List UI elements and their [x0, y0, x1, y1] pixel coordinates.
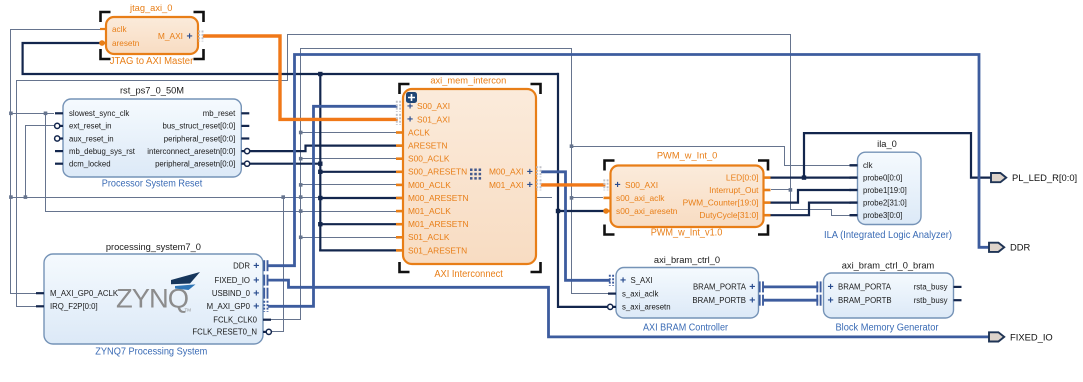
junction clk at (10.9,197.1)	[9, 195, 13, 199]
pin icn M00_AXI	[536, 166, 538, 177]
block processing_system7_0 ZYNQ7 Processing System	[44, 254, 263, 344]
pin ps7 M_AXI_GP0	[263, 301, 265, 312]
svg-text:aresetn: aresetn	[112, 39, 140, 48]
wire DutyCycle[31:0] to probe2	[772, 203, 850, 216]
svg-text:interconnect_aresetn[0:0]: interconnect_aresetn[0:0]	[147, 147, 235, 156]
pin jtag aclk	[100, 28, 106, 30]
svg-text:PWM_w_Int_0: PWM_w_Int_0	[657, 151, 717, 161]
svg-text:Interrupt_Out: Interrupt_Out	[709, 185, 759, 195]
svg-text:peripheral_aresetn[0:0]: peripheral_aresetn[0:0]	[155, 160, 235, 169]
pin ila probe0[0:0]	[850, 176, 858, 178]
pin ps7 FCLK_CLK0	[263, 319, 271, 321]
bus DDR to DDR port	[270, 55, 990, 266]
svg-text:+: +	[407, 114, 413, 126]
svg-text:dcm_locked: dcm_locked	[69, 160, 111, 169]
wire aresetn vertical x=320.3	[319, 74, 321, 250]
wire clk branch interconnect ACLK	[301, 132, 404, 134]
pin pwm s00_axi_aresetn	[604, 210, 611, 213]
svg-text:+: +	[253, 288, 259, 300]
svg-text:PWM_w_Int_v1.0: PWM_w_Int_v1.0	[651, 228, 723, 239]
wire clk trunk x=300.7 FCLK_CLK0 up to y=48.4	[272, 49, 572, 320]
svg-text:processing_system7_0: processing_system7_0	[106, 242, 201, 252]
wire PWM_Counter[19:0] to probe1	[772, 190, 850, 203]
pin bramc BRAM_PORTB	[759, 295, 761, 306]
wire aresetn vertical x=557.5 to PWM and BRAM	[558, 74, 608, 307]
pin rst aux_reset_in	[55, 137, 63, 139]
svg-text:S00_ARESETN: S00_ARESETN	[408, 167, 467, 177]
svg-text:IRQ_F2P[0:0]: IRQ_F2P[0:0]	[50, 302, 98, 311]
selection brackets PWM_w_Int_0	[605, 161, 615, 171]
svg-text:DDR: DDR	[1010, 242, 1031, 253]
svg-text:clk: clk	[863, 161, 873, 170]
svg-text:S00_AXI: S00_AXI	[417, 101, 450, 111]
svg-text:ACLK: ACLK	[408, 127, 430, 137]
svg-text:ARESETN: ARESETN	[408, 141, 448, 151]
wire rst peripheral_aresetn to trunk	[246, 163, 320, 165]
pin bramg BRAM_PORTA	[816, 281, 818, 292]
wire LED[0:0] to probe0 and PL_LED_R loop	[772, 177, 850, 179]
pin pwm DutyCycle[31:0]	[764, 214, 771, 217]
wire PWM Interrupt_Out to junction	[772, 189, 791, 191]
svg-text:probe0[0:0]: probe0[0:0]	[863, 173, 902, 182]
svg-text:+: +	[749, 295, 755, 307]
svg-text:+: +	[253, 260, 259, 272]
svg-text:+: +	[620, 275, 626, 287]
junction clk at (10.9,113.3)	[9, 112, 13, 116]
svg-text:BRAM_PORTA: BRAM_PORTA	[838, 283, 892, 292]
wire (selected) interconnect M01_AXI to PWM S00_AXI	[543, 183, 604, 186]
wire peripheral_aresetn trunk from jtag aresetn loop	[23, 43, 558, 74]
pin rst ext_reset_in	[55, 125, 63, 127]
svg-text:FIXED_IO: FIXED_IO	[214, 276, 250, 285]
pin bramg rstb_busy	[954, 299, 962, 301]
svg-text:FCLK_RESET0_N: FCLK_RESET0_N	[192, 328, 257, 337]
wire ext_reset_in branch x=25.4	[26, 126, 54, 198]
svg-text:DutyCycle[31:0]: DutyCycle[31:0]	[699, 210, 758, 220]
pin bramc s_axi_aclk	[608, 293, 616, 295]
pin bramc BRAM_PORTA	[759, 281, 761, 292]
pin pwm Interrupt_Out	[764, 189, 771, 192]
bus FIXED_IO to FIXED_IO port	[270, 280, 990, 337]
pin pwm LED[0:0]	[764, 176, 771, 179]
svg-text:S01_ARESETN: S01_ARESETN	[408, 245, 467, 255]
wire branch interconnect M01_ARESETN	[320, 223, 403, 225]
wire reset left vertical x=16 with IRQ_F2P branch	[17, 81, 43, 307]
pin icn M01_ACLK	[396, 210, 403, 213]
wire clk vertical x=570.5 to PWM and BRAM aclk	[572, 49, 609, 294]
wire branch PWM s00_axi_aresetn	[558, 210, 603, 212]
port FIXED_IO	[989, 332, 1004, 341]
svg-text:BRAM_PORTB: BRAM_PORTB	[692, 296, 746, 305]
wire branch interconnect M00_ARESETN	[320, 197, 403, 199]
svg-text:PL_LED_R[0:0]: PL_LED_R[0:0]	[1012, 172, 1077, 183]
svg-text:mb_reset: mb_reset	[203, 109, 236, 118]
pin bramg rsta_busy	[954, 286, 962, 288]
svg-text:USBIND_0: USBIND_0	[212, 289, 251, 298]
block axi_bram_ctrl_0 AXI BRAM Controller	[616, 268, 759, 319]
pin ps7 M_AXI_GP0_ACLK	[36, 292, 44, 294]
wire interrupt down to probe3	[791, 190, 850, 216]
bus M00_AXI to AXI BRAM controller S_AXI	[543, 172, 609, 280]
svg-text:Block Memory Generator: Block Memory Generator	[836, 323, 940, 334]
pin icn ACLK	[396, 131, 403, 134]
pin rst slowest_sync_clk	[55, 112, 63, 114]
svg-text:axi_mem_intercon: axi_mem_intercon	[430, 76, 506, 86]
svg-text:LED[0:0]: LED[0:0]	[726, 173, 759, 183]
block PWM_w_Int_0	[611, 166, 764, 228]
pin bramc s_axi_aresetn	[608, 306, 616, 308]
bus BRAM_PORTB ctrl to blockmem	[765, 299, 817, 302]
wire branch interconnect S00_ARESETN	[320, 171, 403, 173]
expand icon	[406, 92, 417, 103]
svg-text:Processor System Reset: Processor System Reset	[102, 178, 203, 189]
svg-text:M_AXI_GP0_ACLK: M_AXI_GP0_ACLK	[50, 289, 119, 298]
pin ila probe3[0:0]	[850, 214, 858, 216]
pin ila clk	[850, 164, 858, 166]
block axi_mem_intercon AXI Interconnect	[403, 89, 536, 264]
svg-text:probe3[0:0]: probe3[0:0]	[863, 211, 902, 220]
pin pwm s00_axi_aclk	[604, 197, 611, 200]
svg-text:S_AXI: S_AXI	[631, 276, 653, 285]
svg-text:+: +	[527, 166, 533, 178]
wire clk branch interconnect S00_ACLK	[301, 158, 404, 160]
pin rst interconnect_aresetn[0:0]	[241, 150, 249, 152]
pin bramc S_AXI	[609, 275, 611, 286]
selection brackets axi_mem_intercon	[400, 84, 410, 94]
wire clk branch interconnect M00_ACLK	[301, 184, 404, 186]
pin jtag M_AXI	[198, 31, 200, 42]
svg-text:rstb_busy: rstb_busy	[914, 296, 948, 305]
svg-text:jtag_axi_0: jtag_axi_0	[129, 3, 172, 13]
svg-text:M01_ACLK: M01_ACLK	[408, 206, 451, 216]
svg-text:s_axi_aclk: s_axi_aclk	[622, 289, 659, 298]
svg-text:S01_AXI: S01_AXI	[417, 114, 450, 124]
pin icn M00_ARESETN	[396, 197, 403, 200]
svg-text:+: +	[253, 274, 259, 286]
svg-text:mb_debug_sys_rst: mb_debug_sys_rst	[69, 147, 136, 156]
pin icn M01_AXI	[536, 179, 538, 190]
pin icn S01_AXI	[396, 114, 398, 125]
svg-text:M_AXI_GP0: M_AXI_GP0	[207, 302, 251, 311]
svg-text:M00_ARESETN: M00_ARESETN	[408, 193, 469, 203]
svg-text:ext_reset_in: ext_reset_in	[69, 122, 111, 131]
svg-text:ILA (Integrated Logic Analyzer: ILA (Integrated Logic Analyzer)	[824, 230, 952, 241]
pin pwm S00_AXI	[603, 179, 605, 190]
pin rst mb_debug_sys_rst	[55, 150, 63, 152]
svg-text:s00_axi_aclk: s00_axi_aclk	[616, 193, 665, 203]
svg-text:bus_struct_reset[0:0]: bus_struct_reset[0:0]	[162, 122, 235, 131]
svg-text:M_AXI: M_AXI	[158, 31, 183, 41]
block ila_0 ILA	[858, 152, 922, 224]
wire rst interconnect_aresetn to interconnect ARESETN	[246, 146, 403, 152]
svg-text:M01_ARESETN: M01_ARESETN	[408, 219, 469, 229]
wire clk branch interconnect S01_ACLK	[301, 237, 404, 239]
svg-text:axi_bram_ctrl_0_bram: axi_bram_ctrl_0_bram	[842, 261, 935, 271]
pin ps7 IRQ_F2P[0:0]	[36, 305, 44, 307]
svg-text:+: +	[749, 281, 755, 293]
svg-text:+: +	[253, 301, 259, 313]
bus M_AXI_GP0 to interconnect S00_AXI	[270, 106, 397, 306]
svg-text:aux_reset_in: aux_reset_in	[69, 134, 114, 143]
svg-text:probe2[31:0]: probe2[31:0]	[863, 198, 907, 207]
svg-text:FCLK_CLK0: FCLK_CLK0	[213, 316, 257, 325]
svg-text:s_axi_aresetn: s_axi_aresetn	[622, 303, 671, 312]
svg-text:+: +	[615, 179, 621, 191]
wire FCLK_RESET0_N to x=283.2 up	[272, 198, 284, 332]
svg-text:M00_ACLK: M00_ACLK	[408, 180, 451, 190]
pin ps7 FCLK_RESET0_N	[263, 331, 271, 333]
svg-text:axi_bram_ctrl_0: axi_bram_ctrl_0	[654, 255, 720, 265]
svg-text:JTAG to AXI Master: JTAG to AXI Master	[110, 56, 194, 67]
pin icn ARESETN	[396, 144, 403, 147]
svg-text:rsta_busy: rsta_busy	[914, 283, 948, 292]
selection brackets jtag_axi_0	[101, 12, 111, 22]
pin icn S01_ACLK	[396, 236, 403, 239]
svg-text:+: +	[527, 179, 533, 191]
svg-text:M01_AXI: M01_AXI	[489, 180, 523, 190]
svg-text:AXI BRAM Controller: AXI BRAM Controller	[643, 323, 729, 334]
svg-text:BRAM_PORTA: BRAM_PORTA	[693, 283, 747, 292]
svg-text:M00_AXI: M00_AXI	[489, 167, 523, 177]
svg-text:peripheral_reset[0:0]: peripheral_reset[0:0]	[164, 134, 236, 143]
svg-text:aclk: aclk	[112, 25, 127, 34]
bus BRAM_PORTA ctrl to blockmem	[765, 285, 817, 288]
pin rst dcm_locked	[55, 163, 63, 165]
pin rst mb_reset	[241, 112, 249, 114]
wire clk branch to rst slowest_sync_clk	[11, 113, 54, 115]
pin icn M01_ARESETN	[396, 223, 403, 226]
svg-text:S01_ACLK: S01_ACLK	[408, 232, 450, 242]
pin ps7 USBIND_0	[263, 288, 265, 299]
svg-text:S00_ACLK: S00_ACLK	[408, 154, 450, 164]
icon interconnect grid	[470, 169, 473, 172]
pin ps7 DDR	[263, 260, 265, 271]
pin icn S00_ACLK	[396, 157, 403, 160]
pin icn S00_AXI	[396, 101, 398, 112]
svg-text:+: +	[828, 281, 834, 293]
svg-text:probe1[19:0]: probe1[19:0]	[863, 186, 907, 195]
svg-text:DDR: DDR	[233, 262, 250, 271]
block jtag_axi_0 JTAG to AXI Master	[106, 17, 198, 54]
svg-text:AXI Interconnect: AXI Interconnect	[434, 269, 503, 280]
svg-text:TM: TM	[185, 308, 192, 313]
port DDR	[989, 243, 1004, 252]
wire clk long horizontal y=197.1	[11, 197, 552, 199]
pin icn M00_ACLK	[396, 184, 403, 187]
wire interrupt loop top y=34	[17, 35, 791, 190]
svg-text:FIXED_IO: FIXED_IO	[1010, 331, 1053, 342]
svg-text:ila_0: ila_0	[877, 139, 897, 149]
pin icn S01_ARESETN	[396, 249, 403, 252]
junction dots on clk trunk	[299, 131, 303, 135]
pin ps7 FIXED_IO	[263, 275, 265, 286]
svg-text:S00_AXI: S00_AXI	[625, 180, 658, 190]
pin pwm PWM_Counter[19:0]	[764, 201, 771, 204]
wire clk branch interconnect M01_ACLK from x=45.5	[46, 114, 404, 212]
pin rst bus_struct_reset[0:0]	[241, 125, 249, 127]
pin rst peripheral_aresetn[0:0]	[241, 163, 249, 165]
wire clk net: left trunk x=10.9 jtag aclk to PS M_AXI_GP0_ACLK	[11, 30, 107, 294]
svg-text:+: +	[187, 31, 193, 43]
svg-text:rst_ps7_0_50M: rst_ps7_0_50M	[120, 86, 184, 96]
svg-text:slowest_sync_clk: slowest_sync_clk	[69, 109, 129, 118]
svg-text:PWM_Counter[19:0]: PWM_Counter[19:0]	[683, 198, 759, 208]
wire branch interconnect S01_ARESETN	[320, 249, 403, 251]
svg-text:ZYNQ7 Processing System: ZYNQ7 Processing System	[95, 347, 207, 358]
svg-text:+: +	[407, 101, 413, 113]
pin jtag aresetn	[100, 42, 106, 44]
pin rst peripheral_reset[0:0]	[241, 137, 249, 139]
wire clk branch PWM s00_axi_aclk	[572, 197, 603, 199]
wire clk branch to ILA clk	[572, 147, 850, 166]
svg-text:+: +	[828, 295, 834, 307]
block rst_ps7_0_50M Processor System Reset	[63, 99, 241, 177]
svg-text:s00_axi_aresetn: s00_axi_aresetn	[616, 206, 678, 216]
pin bramg BRAM_PORTB	[816, 295, 818, 306]
wire (selected) jtag M_AXI to interconnect S01_AXI	[205, 36, 397, 119]
pin icn S00_ARESETN	[396, 171, 403, 174]
block axi_bram_ctrl_0_bram Block Memory Generator	[824, 273, 954, 318]
port PL_LED_R[0:0]	[991, 173, 1006, 182]
pin ila probe1[19:0]	[850, 189, 858, 191]
pin ila probe2[31:0]	[850, 201, 858, 203]
svg-text:BRAM_PORTB: BRAM_PORTB	[838, 296, 892, 305]
